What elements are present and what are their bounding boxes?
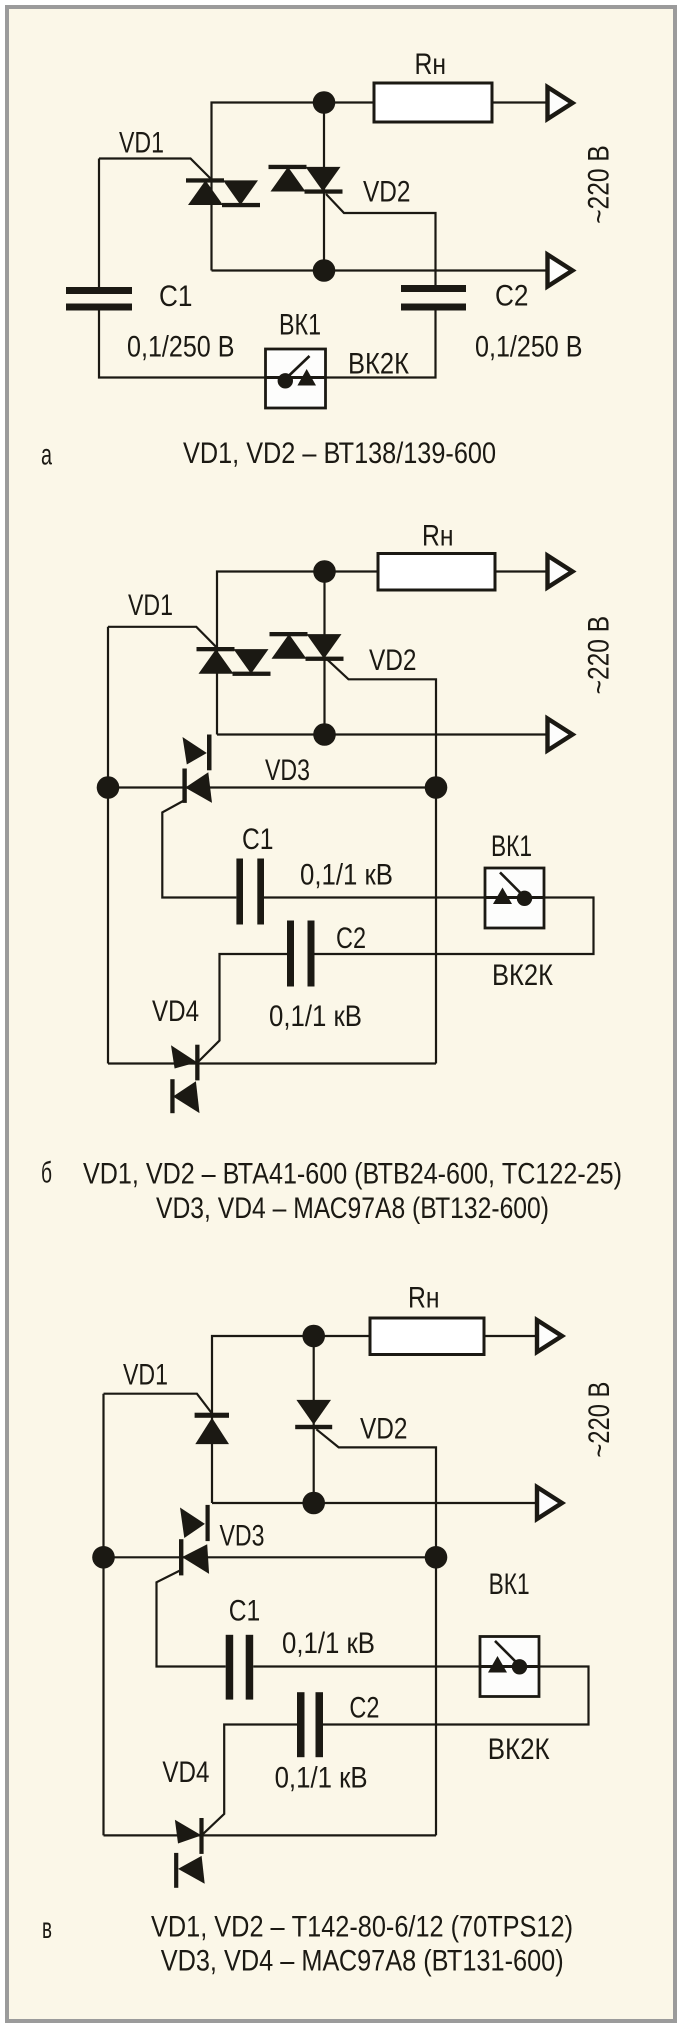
wire: circuit v bottom rail [104,1834,437,1836]
svg-text:VD3, VD4 – МАС97А8 (ВТ131-600): VD3, VD4 – МАС97А8 (ВТ131-600) [161,1945,564,1978]
triac VD3 (circuit b) [182,735,212,803]
svg-text:0,1/1 кВ: 0,1/1 кВ [275,1762,368,1795]
capacitor C2 (circuit a) [401,285,466,311]
svg-text:0,1/1 кВ: 0,1/1 кВ [269,1000,362,1033]
node: circuit a top junction [313,91,336,114]
wire: circuit a resistor to terminal [492,101,547,103]
node: circuit v left junction [92,1546,115,1569]
terminal arrow b2 [548,719,573,751]
svg-text:0,1/1 кВ: 0,1/1 кВ [282,1627,375,1660]
wire: circuit v VD3 gate to C1 [157,1571,226,1667]
wire: circuit b VD3 rail [108,786,436,788]
resistor Rn (circuit b) [378,554,495,591]
svg-text:VD4: VD4 [152,995,199,1028]
node: circuit v right junction [425,1546,448,1569]
wire: circuit a VD1 gate [99,159,211,180]
node: circuit a bottom junction [313,259,336,282]
svg-text:C2: C2 [495,280,529,313]
wire: circuit v mid rail [212,1502,539,1504]
capacitor C2 (circuit v) [297,1692,323,1757]
terminal arrow a1 [548,87,573,119]
wire: circuit v C1 to switch [253,1665,480,1667]
wire: circuit b VD2 branch vertical [323,572,325,735]
triac VD2 (circuit a) [269,165,343,194]
wire: circuit a bottom rail [212,269,548,271]
capacitor C1 (circuit a) [66,287,132,311]
terminal arrow a2 [548,255,573,287]
triac VD1 (circuit b) [197,647,271,676]
node: circuit v top junction [302,1325,325,1348]
svg-text:а: а [41,439,52,472]
svg-text:0,1/250 В: 0,1/250 В [127,331,235,364]
wire: circuit a C1 to switch [99,310,266,378]
capacitor C1 (circuit v) [226,1635,254,1700]
switch BK1 (circuit a) [266,349,326,408]
svg-text:ВК2К: ВК2К [488,1733,550,1766]
wire: circuit b switch loop to C2 [315,898,594,955]
svg-text:VD1, VD2 – Т142-80-6/12 (70TPS: VD1, VD2 – Т142-80-6/12 (70TPS12) [151,1911,573,1944]
svg-text:~220 В: ~220 В [583,145,616,224]
thyristor VD2 (circuit v) [295,1400,332,1429]
terminal arrow b1 [548,556,573,588]
svg-text:ВК2К: ВК2К [492,959,553,992]
terminal arrow v1 [537,1320,562,1352]
svg-text:ВК1: ВК1 [491,830,532,863]
triac VD3 (circuit v) [179,1505,210,1575]
svg-text:Rн: Rн [408,1282,440,1315]
svg-text:C2: C2 [349,1692,379,1725]
wire: circuit v VD2 branch vertical [313,1336,315,1503]
svg-text:C1: C1 [229,1595,260,1628]
node: circuit v mid junction [302,1492,325,1515]
node: circuit b mid junction [313,723,336,746]
triac VD4 (circuit v) [174,1818,205,1888]
svg-text:VD3, VD4 – МАС97А8 (ВТ132-600): VD3, VD4 – МАС97А8 (ВТ132-600) [156,1192,549,1225]
wire: circuit v C2 to VD4 gate [202,1725,298,1836]
wire: circuit b top rail [217,572,378,735]
wire: circuit a C1 branch vertical upper [98,159,100,289]
wire: circuit a VD2 gate to C2 [326,194,436,286]
svg-text:ВК1: ВК1 [489,1568,530,1601]
svg-text:ВК1: ВК1 [279,309,321,342]
terminal arrow v2 [537,1487,562,1519]
triac VD1 (circuit a) [186,178,260,207]
wire: circuit b resistor to terminal [495,570,549,572]
svg-text:в: в [42,1912,52,1945]
node: circuit b right junction [425,776,448,799]
svg-text:C1: C1 [159,280,193,313]
wire: circuit b VD3 gate to C1 [162,801,236,898]
svg-text:C2: C2 [336,922,366,955]
capacitor C1 (circuit b) [236,859,264,925]
svg-text:VD2: VD2 [369,644,417,677]
wire: circuit b VD2 gate down right vertical [327,659,436,1063]
svg-text:0,1/250 В: 0,1/250 В [475,331,583,364]
svg-text:Rн: Rн [415,48,447,81]
triac VD2 (circuit b) [270,632,344,661]
wire: circuit b mid rail [217,733,549,735]
svg-text:VD1, VD2 – ВТА41-600 (ВТВ24-60: VD1, VD2 – ВТА41-600 (ВТВ24-600, ТС122-2… [83,1158,622,1191]
switch BK1 (circuit b) [485,868,544,928]
svg-text:VD1: VD1 [119,127,164,160]
wire: circuit b C2 to VD4 gate [198,954,288,1063]
svg-text:VD1, VD2 – ВТ138/139-600: VD1, VD2 – ВТ138/139-600 [183,437,496,470]
wire: circuit v VD3 rail [104,1556,437,1558]
svg-text:VD3: VD3 [220,1520,265,1553]
svg-text:0,1/1 кВ: 0,1/1 кВ [300,859,393,892]
wire: circuit b left vertical [107,627,109,1064]
node: circuit b top junction [313,560,336,583]
resistor Rn (circuit a) [374,83,492,122]
wire: circuit v VD2 gate down right vertical [316,1429,436,1835]
wire: circuit b bottom rail [108,1062,436,1064]
svg-text:~220 В: ~220 В [583,1382,616,1458]
resistor Rn (circuit v) [370,1318,484,1355]
wire: circuit v VD1 gate [104,1394,213,1414]
wire: circuit v resistor to terminal [484,1335,539,1337]
svg-text:ВК2К: ВК2К [348,348,409,381]
thyristor VD1 (circuit v) [195,1413,229,1444]
node: circuit b left junction [97,776,120,799]
svg-text:б: б [41,1157,52,1190]
svg-text:C1: C1 [242,823,274,856]
svg-text:VD3: VD3 [265,754,310,787]
capacitor C2 (circuit b) [287,921,315,987]
wire: circuit a VD2 branch vertical [323,103,325,271]
triac VD4 (circuit b) [170,1045,199,1114]
svg-text:VD1: VD1 [128,589,173,622]
wire: circuit v left vertical [102,1394,104,1836]
svg-text:~220 В: ~220 В [583,616,616,695]
svg-text:VD4: VD4 [162,1756,209,1789]
svg-text:VD1: VD1 [123,1359,168,1392]
wire: circuit a top rail [212,103,375,271]
wire: circuit v top rail [212,1336,370,1503]
wire: circuit v switch loop to C2 [323,1667,589,1725]
svg-text:VD2: VD2 [363,176,411,209]
svg-text:Rн: Rн [422,520,454,553]
wire: circuit b C1 to switch [264,896,485,898]
switch BK1 (circuit v) [480,1637,539,1697]
svg-text:VD2: VD2 [360,1413,408,1446]
wire: circuit a C2 to switch [326,310,436,378]
wire: circuit b VD1 gate [108,627,216,647]
